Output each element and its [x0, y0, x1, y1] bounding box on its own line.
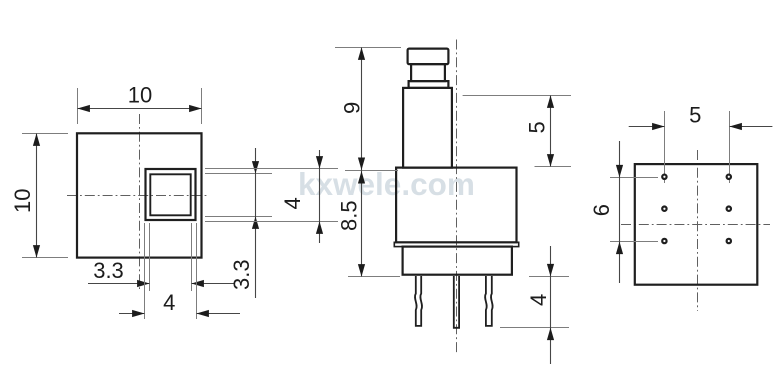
- dimension 4 (middle bottom): extension line bottom: [500, 327, 569, 329]
- dimension 5 (middle): bottom arrow: [547, 154, 554, 167]
- dimension 6 (bottom view): dimension line: [619, 141, 621, 283]
- svg-text:10: 10: [10, 189, 35, 213]
- svg-text:4: 4: [280, 197, 305, 209]
- side view: main body: [396, 168, 516, 243]
- svg-text:5: 5: [525, 121, 550, 133]
- bottom view: pin B1 (top-right): [727, 175, 731, 179]
- dimension 10 (left): extension line top: [22, 133, 68, 135]
- dimension 9: dimension line: [361, 48, 363, 171]
- dimension 5 (middle): top arrow: [547, 95, 554, 108]
- dimension 5 (middle): extension line top: [463, 95, 571, 97]
- dimension 10 (left): bottom arrow: [33, 245, 40, 258]
- dimension 3.3 (bottom): right arrow: [191, 280, 204, 287]
- dimension 5 (bottom view): left arrow: [652, 123, 665, 130]
- dimension 9: extension line at cap top: [335, 47, 401, 49]
- dimension 5 (bottom view): right arrow: [729, 123, 742, 130]
- dimension 4 (bottom): extension line from button outer right: [196, 223, 198, 319]
- svg-text:6: 6: [589, 204, 614, 216]
- dimension 6 (bottom view): bottom arrow: [616, 242, 623, 255]
- svg-text:3.3: 3.3: [229, 259, 254, 290]
- dimension 4 (right of front view): extension line bottom: [205, 221, 338, 223]
- bottom view: pin B2 (mid-right): [727, 207, 731, 211]
- dimension 4 (middle bottom): bottom arrow: [547, 328, 554, 341]
- svg-text:4: 4: [526, 294, 551, 306]
- bottom view: horizontal centerline: [621, 224, 770, 226]
- side view: bottom lip: [394, 242, 518, 246]
- dimension 10 (top): left arrow: [77, 105, 90, 112]
- dimension 5 (bottom view): dimension line left part: [629, 126, 665, 128]
- bottom view: pin B3 (bottom-right): [727, 239, 731, 243]
- dimension 4 (bottom): left arrow: [132, 310, 145, 317]
- dimension 3.3 (bottom): left arrow: [137, 280, 150, 287]
- side view: button cap: [408, 49, 449, 65]
- dimension 9: top arrow: [358, 47, 365, 60]
- dimension 3.3 (right of front view): top arrow: [252, 161, 259, 174]
- svg-text:9: 9: [340, 102, 365, 114]
- svg-text:10: 10: [128, 83, 152, 108]
- dimension 10 (left): dimension line: [36, 134, 38, 258]
- side view: pin 2 (middle, straight): [454, 276, 459, 328]
- front view: button inner square: [150, 174, 190, 215]
- dimension 5 (bottom view): dimension line right part: [730, 126, 773, 128]
- dimension 6 (bottom view): top arrow: [616, 165, 623, 178]
- dimension 4 (right of front view): dimension line: [319, 150, 321, 243]
- dimension 10 (top): dimension line: [78, 108, 202, 110]
- svg-text:3.3: 3.3: [93, 258, 124, 283]
- dimension 3.3 (right of front view): bottom arrow: [252, 216, 259, 229]
- dimension 3.3 (bottom): dimension line right part: [192, 283, 235, 285]
- dimension 6 (bottom view): extension line top: [610, 177, 658, 179]
- bottom view: pin A3 (bottom-left): [662, 239, 666, 243]
- dimension 9/8.5 shared: extension line at body top: [345, 170, 398, 172]
- dimension 3.3 (right of front view): dimension line: [255, 148, 257, 298]
- dimension 4 (bottom): dimension line left part: [119, 313, 145, 315]
- dimension 4 (right of front view): bottom arrow: [316, 221, 323, 234]
- side view: pin 3 (right, crimped): [485, 276, 493, 326]
- svg-text:8.5: 8.5: [337, 200, 362, 231]
- front view: button outer square: [146, 169, 196, 220]
- side view: pin 1 (left, crimped): [415, 276, 422, 326]
- front view: vertical centerline: [139, 114, 141, 291]
- front view: outer body square 10x10: [77, 133, 202, 257]
- bottom view: vertical centerline: [697, 150, 699, 311]
- dimension 10 (left): top arrow: [33, 133, 40, 146]
- dimension 3.3 (bottom): dimension line left part: [88, 283, 150, 285]
- dimension 3.3 (bottom): extension line from button inner right: [191, 223, 193, 291]
- svg-text:4: 4: [163, 290, 175, 315]
- dimension 4 (bottom): dimension line right part: [197, 313, 241, 315]
- dimension 5 (bottom view): extension line right: [729, 111, 731, 183]
- front view: horizontal centerline: [67, 195, 209, 197]
- dimension 6 (bottom view): extension line bottom: [610, 241, 658, 243]
- dimension 10 (left): extension line bottom: [22, 257, 68, 259]
- dimension 3.3 (bottom): extension line from button inner left: [149, 223, 151, 291]
- dimension 8.5: top arrow: [358, 171, 365, 184]
- dimension 4 (right of front view): top arrow: [316, 156, 323, 169]
- bottom view: body square: [635, 164, 758, 285]
- dimension 8.5: dimension line: [361, 171, 363, 277]
- dimension 10 (top): extension line left: [77, 88, 79, 124]
- svg-text:5: 5: [689, 103, 701, 128]
- dimension 10 (top): right arrow: [189, 105, 202, 112]
- bottom view: pin A1 (top-left): [662, 175, 666, 179]
- bottom view: pin A2 (mid-left): [662, 207, 666, 211]
- svg-text:kxwele.com: kxwele.com: [298, 166, 475, 202]
- dimension 5 (bottom view): extension line left: [664, 111, 666, 183]
- side view: vertical centerline: [456, 40, 458, 354]
- dimension 8.5: extension line at base bottom: [348, 276, 400, 278]
- dimension 8.5: bottom arrow: [358, 264, 365, 277]
- dimension 3.3 (right of front view): extension line bottom: [205, 216, 272, 218]
- dimension 4 (middle bottom): extension line top: [529, 276, 569, 278]
- dimension 5 (middle): dimension line: [550, 96, 552, 167]
- dimension 4 (bottom): extension line from button outer left: [144, 223, 146, 319]
- side view: neck column: [403, 88, 452, 168]
- dimension 4 (middle bottom): dimension line: [550, 246, 552, 364]
- side view: button mid section: [411, 64, 445, 81]
- dimension 10 (top): extension line right: [201, 88, 203, 124]
- dimension 4 (right of front view): extension line top: [205, 168, 338, 170]
- dimension 9: bottom arrow: [358, 158, 365, 171]
- dimension 4 (bottom): right arrow: [196, 310, 209, 317]
- side view: button collar band: [409, 81, 449, 88]
- dimension 3.3 (right of front view): extension line top: [205, 173, 272, 175]
- dimension 5 (middle): extension line bottom: [535, 166, 572, 168]
- side view: base block: [403, 247, 512, 275]
- dimension 4 (middle bottom): top arrow: [547, 264, 554, 277]
